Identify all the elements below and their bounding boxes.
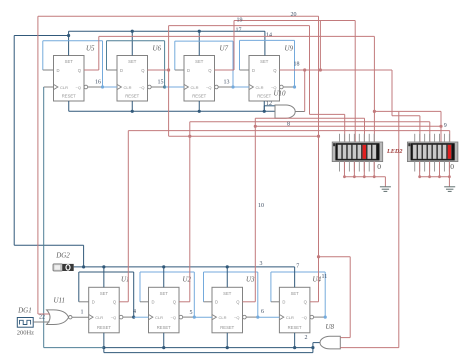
svg-text:D: D bbox=[57, 68, 60, 73]
wire U2 feedback loop ~Q to D (light blue) bbox=[140, 272, 196, 319]
svg-text:14: 14 bbox=[266, 33, 272, 39]
svg-text:CLR: CLR bbox=[219, 315, 227, 320]
svg-text:13: 13 bbox=[224, 80, 230, 86]
wire net 8 (red) bbox=[169, 70, 321, 138]
wire Q(U5) to LED (red) bbox=[84, 36, 374, 142]
svg-text:0: 0 bbox=[450, 162, 454, 171]
svg-text:200Hz: 200Hz bbox=[17, 330, 34, 337]
wire U8 input from right (red, up right side) bbox=[340, 112, 399, 348]
wire net 6 clock chain U3 to U4 bbox=[258, 316, 280, 318]
wire Q(U2) to LED (red) bbox=[179, 122, 430, 302]
wire net 19 Q(U7) to LED (red) bbox=[215, 21, 356, 143]
svg-text:U6: U6 bbox=[153, 45, 162, 53]
svg-text:SET: SET bbox=[195, 59, 204, 64]
svg-text:22: 22 bbox=[39, 314, 45, 320]
svg-text:U11: U11 bbox=[54, 297, 66, 305]
wire U4 feedback loop ~Q to D (light blue) bbox=[271, 272, 327, 319]
svg-text:RESET: RESET bbox=[125, 93, 139, 98]
svg-text:10: 10 bbox=[258, 203, 264, 209]
digital constant DG2 bbox=[53, 264, 74, 271]
svg-text:CLR: CLR bbox=[256, 85, 264, 90]
svg-text:D: D bbox=[252, 68, 255, 73]
svg-text:CLR: CLR bbox=[124, 85, 132, 90]
svg-text:9: 9 bbox=[444, 123, 447, 129]
wire DG2 feed (navy, left side) bbox=[14, 36, 83, 267]
svg-text:CLR: CLR bbox=[191, 85, 199, 90]
svg-text:SET: SET bbox=[128, 59, 137, 64]
wire U3 feedback loop ~Q to D (light blue) bbox=[204, 272, 260, 319]
wire U8 riser to LED right pin 6 (red) bbox=[373, 110, 441, 142]
svg-text:RESET: RESET bbox=[157, 325, 171, 330]
svg-text:6: 6 bbox=[261, 309, 264, 315]
wire net 15 clock chain U6 to U7 bbox=[165, 86, 184, 88]
svg-text:~Q: ~Q bbox=[206, 85, 211, 90]
wire net 13 clock chain U7 to U9 bbox=[233, 86, 249, 88]
flip-flop U1 bbox=[89, 287, 123, 333]
svg-text:U8: U8 bbox=[326, 323, 335, 331]
svg-text:8: 8 bbox=[287, 122, 290, 128]
flip-flop U7 bbox=[184, 56, 218, 102]
clock source DG1 200Hz bbox=[17, 318, 33, 328]
wire Q(U6) to LED (red) bbox=[148, 26, 345, 142]
flip-flop U4 bbox=[279, 287, 313, 333]
svg-text:U4: U4 bbox=[313, 276, 322, 284]
svg-text:D: D bbox=[187, 68, 190, 73]
svg-text:RESET: RESET bbox=[192, 93, 206, 98]
svg-text:~Q: ~Q bbox=[111, 315, 116, 320]
wire U1 feedback loop ~Q to D (navy) bbox=[79, 272, 135, 319]
wire left bargraph cathodes to ground (red) bbox=[343, 162, 385, 187]
wire U10 output to net 18 bbox=[295, 70, 305, 112]
svg-text:17: 17 bbox=[236, 28, 242, 34]
svg-text:RESET: RESET bbox=[288, 325, 302, 330]
wire net 4 clock chain U1 to U2 bbox=[134, 316, 149, 318]
svg-text:12: 12 bbox=[266, 101, 272, 107]
svg-text:4: 4 bbox=[133, 309, 136, 315]
wire net 16 clock chain U5 to U6 bbox=[103, 86, 118, 88]
svg-text:U3: U3 bbox=[246, 276, 255, 284]
svg-text:RESET: RESET bbox=[97, 325, 111, 330]
svg-text:D: D bbox=[120, 68, 123, 73]
svg-text:SET: SET bbox=[65, 59, 74, 64]
svg-text:D: D bbox=[282, 300, 285, 305]
ground (left) bbox=[380, 187, 391, 192]
svg-text:LED2: LED2 bbox=[386, 148, 402, 155]
and-gate U8 (mirrored, output left) bbox=[320, 336, 340, 349]
wire net 9 (red) bbox=[254, 125, 443, 128]
svg-text:D: D bbox=[152, 300, 155, 305]
svg-text:CLR: CLR bbox=[95, 315, 103, 320]
svg-text:SET: SET bbox=[223, 291, 232, 296]
flip-flop U2 bbox=[149, 287, 183, 333]
svg-text:CLR: CLR bbox=[60, 85, 68, 90]
wire DG1 output to U11 input bbox=[33, 321, 49, 323]
svg-text:U9: U9 bbox=[285, 45, 294, 53]
wire net 18 Q(U9) to LED (red) bbox=[280, 21, 420, 143]
svg-text:U5: U5 bbox=[86, 45, 95, 53]
ground (right) bbox=[444, 187, 455, 192]
wire net 20 Q(U4) to U11 and U8 (red) bbox=[38, 16, 350, 337]
svg-text:CLR: CLR bbox=[155, 315, 163, 320]
wire RESET rail top row (navy) bbox=[69, 101, 275, 113]
svg-text:RESET: RESET bbox=[220, 325, 234, 330]
flip-flop U9 bbox=[249, 56, 283, 102]
svg-text:~Q: ~Q bbox=[171, 315, 176, 320]
svg-text:SET: SET bbox=[260, 59, 269, 64]
svg-text:SET: SET bbox=[160, 291, 169, 296]
wire SET rail bottom row (navy, net 3) bbox=[74, 265, 295, 287]
svg-text:15: 15 bbox=[158, 80, 164, 86]
svg-text:5: 5 bbox=[190, 310, 193, 316]
svg-text:16: 16 bbox=[95, 80, 101, 86]
svg-text:SET: SET bbox=[100, 291, 109, 296]
svg-text:RESET: RESET bbox=[62, 93, 76, 98]
svg-text:0: 0 bbox=[377, 162, 381, 171]
svg-text:18: 18 bbox=[294, 62, 300, 68]
svg-text:20: 20 bbox=[291, 12, 297, 18]
svg-text:U7: U7 bbox=[220, 45, 229, 53]
svg-text:SET: SET bbox=[291, 291, 300, 296]
wire U5 feedback loop ~Q to D (light blue) bbox=[43, 41, 104, 89]
svg-text:~Q: ~Q bbox=[76, 85, 81, 90]
and-gate U10 bbox=[275, 105, 295, 118]
wire U6 feedback loop ~Q to D (teal) bbox=[107, 41, 167, 89]
wire SET rail top row (navy) bbox=[14, 30, 265, 56]
svg-text:DG2: DG2 bbox=[55, 252, 70, 260]
LED bargraph LED2 left bbox=[332, 142, 383, 162]
svg-text:~Q: ~Q bbox=[234, 315, 239, 320]
svg-text:~Q: ~Q bbox=[139, 85, 144, 90]
wire RESET rail bottom row (navy, net 2) to U8 output bbox=[102, 333, 321, 353]
svg-text:3: 3 bbox=[260, 261, 263, 267]
wire net 5 clock chain U2 to U3 bbox=[194, 316, 212, 318]
svg-text:D: D bbox=[92, 300, 95, 305]
wire right bargraph cathodes to ground (red) bbox=[418, 162, 451, 187]
flip-flop U6 bbox=[117, 56, 151, 102]
wire cascade net to U5 CLK (teal) bbox=[44, 87, 104, 348]
wire U7 feedback loop ~Q to D (light blue) bbox=[175, 41, 235, 89]
svg-text:RESET: RESET bbox=[257, 93, 271, 98]
wire net 1 U11 output to U1 CLK bbox=[72, 316, 89, 318]
svg-text:DG1: DG1 bbox=[17, 306, 32, 314]
svg-text:19: 19 bbox=[237, 18, 243, 24]
svg-text:CLR: CLR bbox=[286, 315, 294, 320]
svg-text:U10: U10 bbox=[274, 90, 287, 98]
svg-text:7: 7 bbox=[296, 264, 299, 270]
flip-flop U5 bbox=[54, 56, 88, 102]
nor-gate U11 bbox=[47, 310, 72, 325]
svg-text:D: D bbox=[215, 300, 218, 305]
LED bargraph LED2 right bbox=[407, 142, 458, 162]
flip-flop U3 bbox=[212, 287, 246, 333]
svg-text:~Q: ~Q bbox=[301, 315, 306, 320]
wire U9 feedback loop ~Q to D (light blue) bbox=[240, 40, 297, 88]
svg-text:11: 11 bbox=[322, 274, 328, 280]
wire net 10 Q(U3) to LED (red) bbox=[243, 118, 365, 301]
svg-text:1: 1 bbox=[81, 310, 84, 316]
svg-text:2: 2 bbox=[305, 335, 308, 341]
wire Q(U1) to LED (red) bbox=[119, 131, 449, 302]
wire U11 upper input (red from net 20) bbox=[38, 313, 50, 315]
